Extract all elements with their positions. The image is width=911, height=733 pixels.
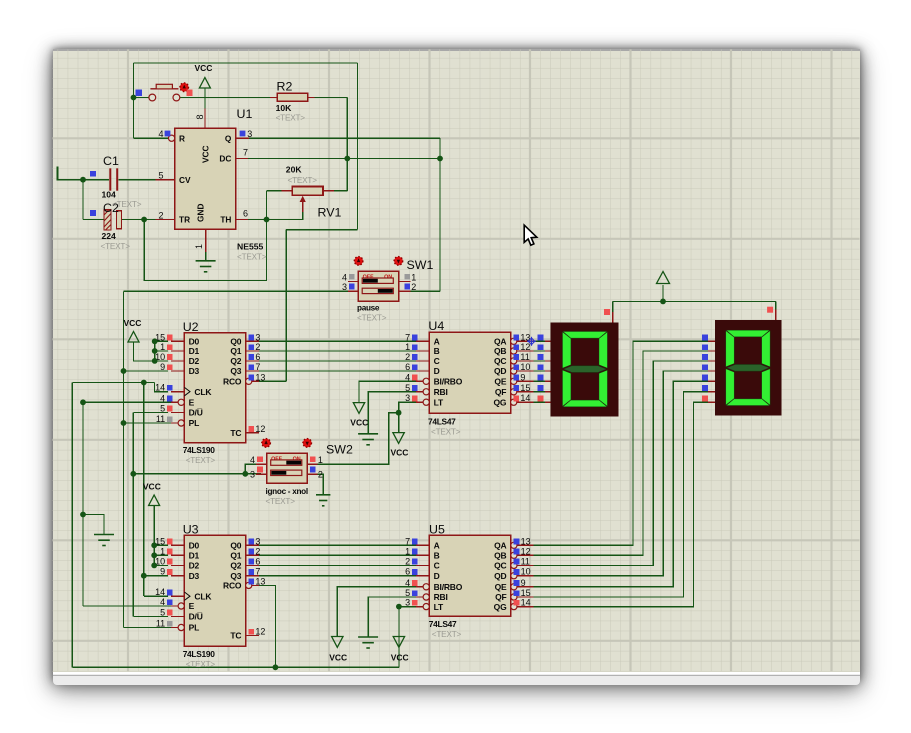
wire U3 RCO drop [259, 585, 276, 667]
svg-text:3: 3 [342, 282, 347, 292]
wire U1 GND pin to ground [205, 252, 207, 261]
svg-text:20K: 20K [286, 165, 303, 175]
svg-text:2: 2 [255, 342, 260, 352]
RV1 lead left [282, 190, 293, 192]
svg-text:104: 104 [102, 190, 117, 200]
svg-text:10: 10 [521, 567, 531, 577]
svg-text:12: 12 [255, 424, 265, 434]
DISP1 segment A (on) [563, 332, 607, 339]
svg-text:Q1: Q1 [230, 551, 241, 561]
wire rail drop to display 1 [612, 301, 614, 312]
svg-text:PL: PL [189, 418, 199, 428]
DISP1 segment D (on) [563, 400, 607, 407]
svg-text:<TEXT>: <TEXT> [431, 428, 461, 437]
wire TR/TH bottom loop [144, 220, 266, 281]
IC U3 (74LS190) body [184, 535, 245, 646]
U3 pin 11 (PL) left [156, 619, 199, 633]
svg-text:D2: D2 [189, 561, 200, 571]
origin marker at U4 QA [527, 337, 536, 346]
wire rail drop to display 2 [775, 301, 777, 309]
svg-text:3: 3 [405, 393, 410, 403]
svg-text:VCC: VCC [391, 653, 409, 663]
power flag VCC (down) for U4 BI/RBO [353, 403, 364, 414]
U4 pin 6 (D) left [405, 362, 439, 376]
svg-text:9: 9 [520, 372, 525, 382]
SW1 pin 1 stub [399, 272, 416, 282]
svg-text:Q1: Q1 [230, 346, 241, 356]
junction dot TH/RV1 [264, 217, 270, 223]
wire D/U trunk vertical [132, 412, 134, 616]
svg-text:74LS47: 74LS47 [428, 417, 456, 427]
DISP2 segment C (on) [762, 369, 770, 405]
U4 pin 12 (QB) right [494, 342, 534, 356]
svg-text:11: 11 [520, 352, 529, 362]
wire U1 Q row [249, 137, 440, 139]
DISP2 segment E (on) [726, 369, 734, 405]
wire E trunk vertical [82, 402, 84, 606]
U1 pin 4 (R) [158, 129, 185, 143]
wire SW2 pin4 jog [245, 464, 261, 474]
DISP2 common anode pin [767, 307, 776, 320]
wire R2 right to DC-column [315, 96, 348, 98]
svg-text:CV: CV [179, 175, 191, 185]
SW1 pin 2 stub [399, 282, 416, 292]
svg-text:QG: QG [493, 397, 506, 407]
display 1 common pin stub [612, 312, 614, 322]
DISP1 segment C (on) [599, 370, 607, 406]
U2 pin 4 (E) left [160, 393, 194, 407]
SW1 pin 3 stub [342, 282, 358, 292]
U1 pin 7 (DC) [219, 148, 248, 164]
wire U3 D0-D2 chain [153, 545, 155, 565]
junction dot U2 D2 [152, 358, 158, 364]
DISP1 segment B (on) [599, 332, 607, 368]
svg-text:ignoc - xnol: ignoc - xnol [266, 487, 308, 496]
svg-text:RV1: RV1 [318, 206, 342, 220]
DISP1 segment G (off) [564, 366, 607, 373]
svg-text:2: 2 [405, 352, 410, 362]
R2 lead right [308, 96, 315, 98]
wire U3 D2 row [154, 564, 168, 566]
wire display common anode rail [613, 300, 776, 302]
SW2 red indicator left [262, 439, 271, 448]
wire R2/RV1 junction vertical [346, 97, 348, 158]
capacitor C1 plates [110, 168, 117, 190]
svg-text:12: 12 [521, 546, 531, 556]
display 2 common pin stub [775, 310, 777, 321]
ground symbol left [94, 535, 114, 546]
svg-text:B: B [434, 551, 440, 561]
junction dot SW2 pin4 jog [242, 471, 248, 477]
wire U4 BI/RBO to VCC flag [359, 381, 420, 402]
svg-text:U5: U5 [429, 523, 445, 537]
junction dot U2 D1 [152, 348, 158, 354]
wire U4 RBI to ground [368, 392, 420, 434]
ground symbol for U4 RBI [358, 434, 378, 445]
svg-text:SW1: SW1 [407, 258, 434, 272]
wire bus Q3 U3 to U5 [259, 575, 416, 577]
U4 pin 3 (LT) left [405, 393, 444, 407]
U2 pin 12 (TC) right [230, 424, 265, 438]
U4 pin 5 (RBI) left [405, 383, 447, 397]
power flag VCC (down) for U4 LT [393, 433, 404, 444]
svg-text:5: 5 [405, 588, 410, 598]
wire DC row [248, 158, 440, 160]
svg-text:<TEXT>: <TEXT> [276, 114, 306, 123]
push button terminal left [149, 94, 156, 101]
U3 pin 14 (CLK) left [155, 587, 212, 601]
svg-text:4: 4 [405, 372, 410, 382]
wire RCO vertical [285, 230, 287, 382]
wire C1 to CV [118, 179, 155, 181]
wire U4 QA to display [534, 340, 547, 342]
application window with schematic canvas [53, 49, 860, 682]
svg-text:4: 4 [158, 129, 163, 139]
svg-text:9: 9 [160, 567, 165, 577]
svg-text:1: 1 [160, 342, 165, 352]
wire button right to R2 [180, 96, 270, 98]
RV1 lead right [323, 190, 334, 192]
svg-text:5: 5 [160, 607, 165, 617]
svg-text:D2: D2 [189, 356, 200, 366]
U1 pin 3 (Q) [225, 129, 252, 143]
svg-text:Q3: Q3 [230, 571, 241, 581]
wire U2 D1 row [155, 350, 169, 352]
wire U4 QF to display [534, 391, 547, 393]
svg-text:10K: 10K [276, 103, 293, 113]
wire U5 BI/RBO to VCC flag [337, 587, 420, 637]
svg-text:QE: QE [494, 377, 506, 387]
power flag VCC for U2 [128, 332, 139, 343]
wire button left connection [134, 97, 150, 99]
wire U2 E row [83, 401, 175, 403]
svg-text:CLK: CLK [194, 387, 212, 397]
junction dot E row corner [80, 399, 86, 405]
U3 pin 3 (Q0) right [230, 536, 260, 550]
svg-text:U4: U4 [428, 319, 444, 333]
svg-text:5: 5 [158, 171, 163, 181]
ground symbol for U5 RBI [358, 637, 378, 648]
U5 pin 15 (QF) right [495, 588, 534, 602]
DISP1 segment pin 3 [538, 354, 551, 361]
wire TH row [248, 219, 267, 221]
wire RV1 left lead riser [266, 191, 268, 220]
svg-text:BI/RBO: BI/RBO [434, 377, 463, 387]
U4 pin 13 (QA) right [494, 332, 534, 346]
U2 pin 2 (Q1) right [230, 342, 260, 356]
svg-text:14: 14 [521, 598, 531, 608]
SW1 slider 2 [362, 288, 393, 293]
U1 pin 6 (TH) [220, 209, 248, 225]
svg-text:74LS47: 74LS47 [429, 619, 457, 629]
svg-text:C1: C1 [103, 154, 119, 168]
svg-text:3: 3 [255, 332, 260, 342]
schematic grid [53, 49, 860, 671]
svg-text:<TEXT>: <TEXT> [186, 456, 216, 465]
U2 pin 15 (D0) left [155, 332, 199, 346]
wire C2 to TR [122, 219, 155, 221]
wire bus Q1 U3 to U5 [259, 554, 416, 556]
push button actuator [150, 84, 178, 89]
wire U5 QA to display 2 [534, 341, 708, 545]
wire U2 PL tap [124, 422, 175, 424]
svg-text:2: 2 [255, 546, 260, 556]
U3 pin 13 (RCO) right [223, 576, 265, 590]
U2 pin 14 (CLK) left [155, 383, 212, 397]
junction dot U3 RCO rail [273, 664, 279, 670]
U5 pin 10 (QD) right [494, 567, 534, 581]
svg-text:QA: QA [494, 337, 506, 347]
svg-text:U2: U2 [183, 320, 199, 334]
U2 pin 5 (D/U&#773;) left [160, 403, 203, 417]
svg-text:3: 3 [405, 598, 410, 608]
DIP switch SW1 body [358, 271, 399, 301]
junction dot U2 D0 [152, 338, 158, 344]
svg-text:<TEXT>: <TEXT> [112, 200, 142, 209]
svg-text:D1: D1 [189, 346, 200, 356]
U4 pin 14 (QG) right [493, 393, 533, 407]
U5 pin 13 (QA) right [494, 536, 534, 550]
U3 pin 15 (D0) left [155, 536, 199, 550]
DISP2 segment pin 4 [702, 364, 715, 371]
SW2 pin 4 stub [250, 455, 267, 465]
DISP1 segment pin 1 [538, 335, 551, 342]
IC U1 (NE555) body [175, 128, 236, 229]
junction dot rail [660, 299, 666, 305]
wire bus Q2 U3 to U5 [259, 564, 416, 566]
push button blue marker square [136, 90, 142, 96]
wire U4 QC to display [534, 360, 547, 362]
power flag VCC for U1 [199, 78, 210, 89]
svg-text:8: 8 [195, 114, 205, 119]
wire input terminal to C1 [58, 179, 110, 181]
wire U1-R top loop horizontal [134, 62, 358, 64]
DISP2 segment pin 7 [702, 396, 715, 403]
U3 pin 10 (D2) left [155, 556, 199, 570]
wire rail to U5 LT riser [398, 607, 400, 668]
svg-text:PL: PL [189, 623, 199, 633]
U5 pin 7 (A) left [405, 536, 439, 550]
wire U2 D/U row [133, 411, 168, 413]
wire U5 RBI to ground [368, 597, 420, 637]
svg-text:<TEXT>: <TEXT> [357, 314, 387, 323]
wire U4 QE to display [534, 380, 547, 382]
wire U3 CLK row [144, 595, 168, 597]
U2 pin 6 (Q2) right [230, 352, 260, 366]
svg-text:R: R [179, 133, 185, 143]
svg-text:6: 6 [255, 352, 260, 362]
DISP1 segment E (on) [563, 370, 571, 406]
wire C1/C2 vertical [82, 180, 84, 220]
svg-text:11: 11 [521, 556, 530, 566]
U5 pin 9 (QE) right [495, 578, 534, 592]
svg-text:QF: QF [495, 592, 506, 602]
svg-text:12: 12 [255, 627, 265, 637]
svg-text:4: 4 [160, 597, 165, 607]
svg-text:QG: QG [494, 602, 507, 612]
SW2 red indicator right [303, 439, 312, 448]
U1 pin 1 stub (GND) [205, 229, 207, 252]
U5 pin 2 (C) left [405, 556, 439, 570]
svg-text:B: B [434, 346, 440, 356]
junction dot U3 D0 [151, 542, 157, 548]
wire U5 LT row [399, 606, 420, 608]
svg-text:7: 7 [255, 362, 260, 372]
svg-text:QD: QD [494, 571, 506, 581]
svg-text:<TEXT>: <TEXT> [266, 497, 296, 506]
DISP2 segment pin 2 [702, 344, 715, 351]
U5 pin 12 (QB) right [494, 546, 534, 560]
junction dot trunk D3 [121, 368, 127, 374]
wire U3 D1 row [154, 554, 168, 556]
svg-text:Q2: Q2 [230, 561, 241, 571]
ground symbol below SW2 [316, 495, 330, 506]
U3 pin 6 (Q2) right [230, 556, 260, 570]
U5 pin 14 (QG) right [494, 598, 534, 612]
DISP2 segment pin 3 [702, 354, 715, 361]
wire U3 D0 row [154, 544, 168, 546]
U4 pin 10 (QD) right [494, 362, 534, 376]
svg-text:QD: QD [494, 366, 506, 376]
svg-text:D: D [434, 571, 440, 581]
svg-text:3: 3 [255, 536, 260, 546]
wire Q to SW1 vertical [439, 138, 441, 291]
svg-text:C: C [434, 561, 440, 571]
svg-text:pause: pause [357, 304, 380, 313]
junction dot clock feed [141, 380, 147, 386]
svg-text:6: 6 [243, 209, 248, 219]
svg-text:VCC: VCC [329, 653, 347, 663]
svg-text:D1: D1 [189, 551, 200, 561]
svg-text:RBI: RBI [434, 592, 448, 602]
svg-text:<TEXT>: <TEXT> [186, 660, 216, 669]
SW1 red indicator left [354, 257, 363, 266]
U4 pin 9 (QE) right [494, 372, 533, 386]
svg-text:11: 11 [156, 619, 165, 629]
svg-text:U1: U1 [237, 107, 253, 121]
svg-text:13: 13 [255, 576, 265, 586]
svg-text:VCC: VCC [195, 63, 213, 73]
U2 pin 1 (D1) left [160, 342, 199, 356]
U5 pin 6 (D) left [405, 567, 439, 581]
wire bus Q2 U2 to U4 [259, 360, 416, 362]
U2 pin 13 (RCO) right [223, 372, 265, 386]
svg-text:QA: QA [494, 541, 506, 551]
svg-text:E: E [189, 398, 195, 408]
U2 pin 7 (Q3) right [230, 362, 260, 376]
svg-text:TH: TH [220, 215, 231, 225]
svg-text:U3: U3 [183, 523, 199, 537]
svg-text:15: 15 [521, 588, 531, 598]
U4 pin 7 (A) left [405, 332, 439, 346]
svg-text:6: 6 [405, 362, 410, 372]
svg-text:E: E [189, 601, 195, 611]
svg-text:VCC: VCC [391, 448, 409, 458]
wire U2 D0-D2 chain [154, 341, 156, 361]
wire bus Q1 U2 to U4 [259, 350, 416, 352]
svg-text:4: 4 [405, 578, 410, 588]
svg-text:9: 9 [521, 578, 526, 588]
wire U4 QD to display [534, 370, 547, 372]
U4 pin 1 (B) left [405, 342, 439, 356]
wire U2 D3 tap [124, 370, 169, 372]
svg-text:14: 14 [155, 383, 165, 393]
svg-text:74LS190: 74LS190 [183, 649, 216, 659]
DISP1 segment pin 7 [538, 396, 551, 403]
U3 pin 5 (D/U&#773;) left [160, 607, 203, 621]
svg-text:<TEXT>: <TEXT> [432, 630, 462, 639]
svg-text:1: 1 [318, 455, 323, 465]
junction dot C1 left [80, 177, 86, 183]
junction dot R2/RV1/DC [344, 156, 350, 162]
SW2 pin 1 stub [307, 455, 323, 465]
U2 pin 3 (Q0) right [230, 332, 260, 346]
wire RCO row to U2 [259, 380, 286, 382]
junction dot U3 D1 [151, 552, 157, 558]
wire U4 QB to display [534, 350, 547, 352]
svg-text:13: 13 [255, 372, 265, 382]
svg-text:7: 7 [405, 536, 410, 546]
U2 pin 9 (D3) left [160, 362, 199, 376]
svg-text:QB: QB [494, 551, 506, 561]
SW1 pin 4 stub [342, 272, 358, 282]
wire bus Q3 U2 to U4 [259, 370, 416, 372]
svg-text:D0: D0 [189, 541, 200, 551]
wire U3 E row [83, 605, 175, 607]
svg-text:D0: D0 [189, 337, 200, 347]
ground symbol below U1 [196, 261, 216, 272]
C1 marker square [90, 171, 96, 177]
DISP1 segment pin 4 [538, 364, 551, 371]
power flag VCC for U3 [149, 495, 160, 506]
svg-text:7: 7 [255, 567, 260, 577]
wire VCC arrow stem for rail [662, 285, 664, 302]
DISP2 segment A (on) [726, 330, 769, 337]
potentiometer RV1 body [292, 187, 323, 196]
svg-text:<TEXT>: <TEXT> [288, 176, 318, 185]
power flag VCC (down) on rail riser [393, 637, 404, 648]
push button terminal right [173, 94, 180, 101]
DISP2 segment D (on) [726, 399, 769, 406]
U1 pin 2 (TR) [155, 211, 190, 225]
svg-text:<TEXT>: <TEXT> [101, 242, 131, 251]
svg-text:QB: QB [494, 346, 506, 356]
svg-text:1: 1 [194, 244, 204, 249]
svg-text:DC: DC [219, 154, 231, 164]
svg-text:RCO: RCO [223, 377, 242, 387]
wire U2 D0 row [155, 340, 169, 342]
power flag VCC (down) for U5 BI/RBO [332, 637, 343, 648]
svg-text:11: 11 [156, 414, 165, 424]
svg-text:D3: D3 [189, 571, 200, 581]
DISP2 segment B (on) [762, 331, 770, 367]
svg-text:4: 4 [250, 455, 255, 465]
capacitor C2 (polarized) plates [104, 210, 122, 230]
DIP switch SW2 body [267, 453, 308, 483]
wire R pin row [134, 137, 169, 139]
DISP1 segment pin 5 [538, 375, 551, 382]
wire U2 D2 row [155, 360, 169, 362]
IC U4 (74LS47) body [429, 332, 510, 413]
svg-text:7: 7 [243, 148, 248, 158]
U3 pin 9 (D3) left [160, 567, 199, 581]
svg-text:NE555: NE555 [237, 242, 263, 252]
junction dot E/ground tap [80, 512, 86, 518]
U5 pin 1 (B) left [405, 546, 439, 560]
wire left trunk (PL net) vertical [123, 291, 125, 627]
RV1 wiper arrow [300, 196, 306, 212]
svg-text:GND: GND [196, 204, 206, 222]
